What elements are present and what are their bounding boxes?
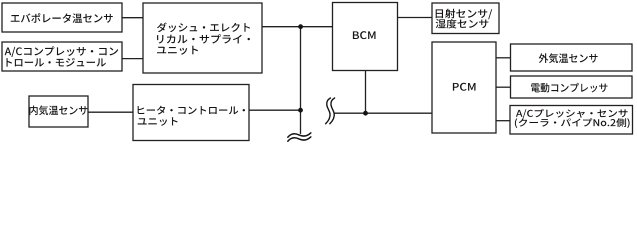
junction dot BCM drop / PCM wire xyxy=(363,111,368,116)
wire: PCM to electric compressor xyxy=(496,86,511,88)
box: ambient temp sensor 外気温センサ xyxy=(511,44,633,71)
label ユニット line3 xyxy=(157,46,198,55)
label A/Cプレッシャ・センサ line1 xyxy=(516,109,628,119)
box: dash electrical supply unit ダッシュ・エレクトリカル・サプライ・ユニット xyxy=(143,3,262,73)
wire: BCM bottom to PCM wire junction xyxy=(365,71,367,114)
label BCM xyxy=(353,31,376,39)
wire: harness break to PCM xyxy=(335,112,433,114)
break symbol: double tilde on vertical bus xyxy=(288,133,311,137)
label ユニット line2 xyxy=(138,117,178,126)
box: electric compressor 電動コンプレッサ xyxy=(511,76,633,98)
box: A/C pressure sensor A/Cプレッシャ・センサ（クーラ・パイプNo.2側） xyxy=(510,106,633,135)
label エバポレータ温センサ xyxy=(11,13,113,23)
box: evaporator temp sensor エバポレータ温センサ xyxy=(2,3,122,32)
box: inside air temp sensor 内気温センサ xyxy=(29,96,88,127)
box: PCM xyxy=(432,42,496,133)
junction dot on dash-BCM wire xyxy=(298,24,303,29)
break symbol: double arc on BCM-PCM wire xyxy=(326,98,331,124)
label ヒータ・コントロール・ line1 xyxy=(138,106,245,115)
wire: A/C compressor module to dash unit xyxy=(122,58,143,60)
wire: vertical bus from dash-BCM wire down to break xyxy=(300,27,302,134)
wire: PCM to A/C pressure sensor xyxy=(496,120,510,122)
wire: heater control unit to vertical bus xyxy=(249,109,301,111)
label 電動コンプレッサ xyxy=(531,83,607,93)
wire: dash unit to BCM xyxy=(262,26,333,28)
wire: PCM to ambient temp sensor xyxy=(496,57,511,59)
label 湿度センサ line2 xyxy=(436,19,489,29)
wire: inside air temp sensor to heater control unit xyxy=(88,111,133,113)
label PCM xyxy=(453,83,476,91)
label (クーラ・パイプNo.2側) line2 xyxy=(515,118,630,128)
wire: evaporator sensor to dash unit xyxy=(122,17,143,19)
label リカル・サプライ・ line2 xyxy=(157,34,250,43)
label 日射センサ/ line1 xyxy=(436,9,492,19)
label 外気温センサ xyxy=(539,53,598,63)
box: sunlight/humidity sensor 日射センサ/湿度センサ xyxy=(432,3,499,34)
label ダッシュ・エレクト line1 xyxy=(157,22,250,32)
junction dot heater wire / vertical bus xyxy=(298,108,303,113)
label 内気温センサ xyxy=(30,105,88,115)
box: heater control unit ヒータ・コントロール・ユニット xyxy=(133,85,249,141)
label トロール・モジュール line2 xyxy=(6,58,105,67)
label A/Cコンプレッサ・コン line1 xyxy=(5,46,119,57)
wire: BCM to sunlight/humidity sensor xyxy=(398,17,433,19)
box: A/C compressor control module A/Cコンプレッサ・コントロール・モジュール xyxy=(2,42,122,71)
box: BCM xyxy=(333,3,398,71)
